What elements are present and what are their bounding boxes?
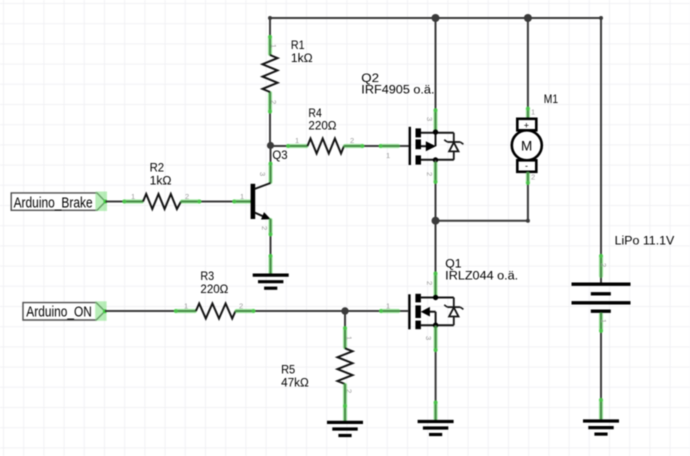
svg-text:3: 3 [258,172,267,176]
ground under Q1 [418,422,454,435]
svg-text:IRF4905 o.ä.: IRF4905 o.ä. [361,83,434,97]
transistor Q1 (IRLZ044 N-MOSFET) [408,256,518,329]
wire battery to ground [599,313,608,420]
wire R2 to Q3 base [181,192,251,204]
resistor R2 [143,161,189,209]
ground under R5 [327,422,363,435]
svg-text:220Ω: 220Ω [308,118,336,132]
svg-text:R1: R1 [291,38,305,52]
wire motor to node B [436,172,536,223]
svg-text:1: 1 [269,44,278,48]
svg-text:1: 1 [184,302,188,311]
wire rail down to R1 [269,18,271,55]
svg-text:1: 1 [295,136,299,145]
wire node A to R4 [271,144,308,148]
svg-text:R3: R3 [200,269,214,283]
wire rail down to motor [526,18,535,118]
wire node B to Q1 drain [425,221,438,298]
svg-text:LiPo 11.1V: LiPo 11.1V [615,234,675,248]
wire node A to Q3 collector [258,146,288,184]
wire Q1 source to ground [424,325,438,420]
svg-text:220Ω: 220Ω [200,282,228,296]
wire R4 to Q2 gate [344,144,409,160]
ground under Q3 [253,275,289,288]
junction dot rail at motor [524,14,532,22]
svg-text:1: 1 [599,319,608,323]
svg-text:1kΩ: 1kΩ [291,51,313,65]
svg-text:2: 2 [531,173,535,182]
resistor R1 [263,35,313,114]
svg-text:47kΩ: 47kΩ [281,375,309,389]
node B junction dot [432,217,440,225]
wire top V+ rail [270,17,601,19]
resistor R5 [281,348,353,393]
svg-text:1: 1 [386,151,390,160]
wire node C down to R5 [343,311,354,348]
svg-text:M: M [521,138,532,153]
svg-text:2: 2 [350,136,354,145]
svg-text:2: 2 [425,281,434,285]
wire rail down to battery [599,18,608,283]
ground under battery [583,421,619,434]
svg-text:-: - [525,161,528,171]
svg-text:+: + [524,120,529,130]
wire Arduino_ON to R3 [105,302,196,314]
junction dot rail at Q2 [432,14,440,22]
svg-text:2: 2 [599,263,608,267]
corner dot rail right [599,16,603,20]
svg-text:M1: M1 [544,92,558,106]
svg-text:2: 2 [269,100,278,104]
svg-text:2: 2 [425,172,434,176]
wire Q2 source to node B [425,160,438,221]
svg-text:1: 1 [386,302,390,311]
transistor Q3 (NPN) [251,183,271,220]
label Arduino_ON [23,301,107,321]
svg-text:IRLZ044 o.ä.: IRLZ044 o.ä. [445,269,518,283]
svg-text:1: 1 [345,336,354,340]
svg-text:3: 3 [425,117,434,121]
svg-text:Arduino_Brake: Arduino_Brake [14,195,93,211]
resistor R4 [295,106,354,154]
corner dot rail left [268,16,272,20]
svg-text:1kΩ: 1kΩ [150,173,172,187]
svg-text:3: 3 [424,336,433,340]
wire R5 to ground [343,384,347,421]
wire R3 to node C and Q1 gate [236,302,409,314]
wire R1 to node A [269,92,271,146]
transistor Q2 (IRF4905 P-MOSFET) [361,71,463,165]
node C junction dot [341,307,348,314]
wire Q3 emitter to ground [260,219,273,274]
node A junction dot [267,142,274,149]
wire Arduino_Brake to R2 [105,192,143,204]
svg-text:Q3: Q3 [272,148,287,162]
wire rail down to Q2 drain [425,18,438,132]
battery LiPo 11.1V [572,234,676,312]
svg-text:1: 1 [240,192,244,201]
svg-text:1: 1 [531,108,535,117]
svg-text:1: 1 [131,192,135,201]
resistor R3 [196,269,243,318]
motor M1 [512,92,558,172]
svg-text:2: 2 [260,226,269,230]
label Arduino_Brake [11,192,107,212]
svg-text:Arduino_ON: Arduino_ON [26,305,92,321]
